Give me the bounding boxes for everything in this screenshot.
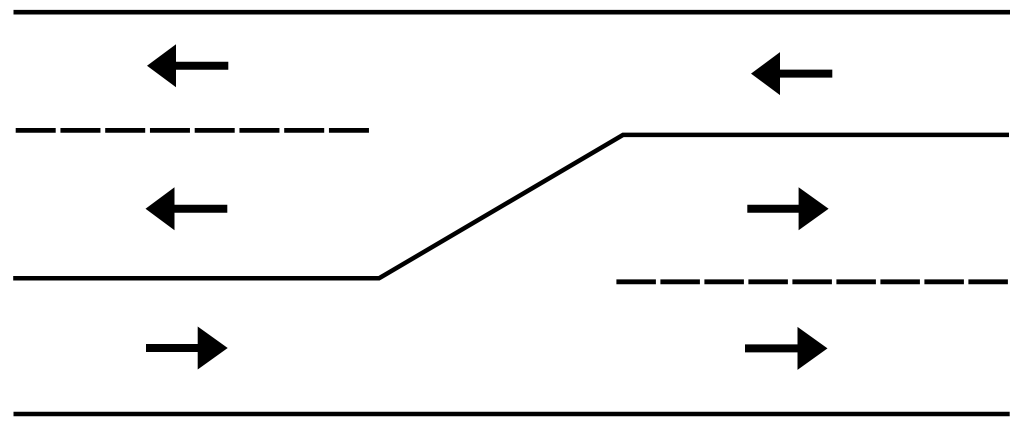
right dashed lane line — [616, 279, 1008, 284]
road bottom edge line — [14, 412, 1010, 417]
arrow top-left pointing left — [147, 44, 228, 87]
left dashed lane line — [16, 128, 369, 133]
arrow middle-right pointing right — [747, 187, 828, 230]
arrow top-right pointing left — [751, 52, 832, 95]
arrow middle-left pointing left — [146, 187, 228, 230]
center line with lane shift — [13, 135, 1009, 278]
road top edge line — [14, 10, 1011, 15]
arrow bottom-right pointing right — [745, 327, 828, 370]
arrow bottom-left pointing right — [146, 327, 228, 370]
